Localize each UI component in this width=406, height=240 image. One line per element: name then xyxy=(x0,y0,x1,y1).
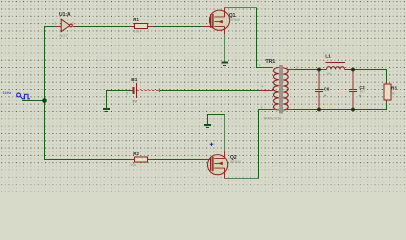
svg-text:+: + xyxy=(324,94,327,99)
junction dot bottom of C2 xyxy=(351,108,355,112)
resistor R3 body xyxy=(384,84,391,100)
wire R1 to Q1 gate xyxy=(153,26,203,28)
wire U1:A output to R1 xyxy=(77,26,130,28)
junction dot top of C2 xyxy=(351,68,355,72)
transistor Q1 drain pin xyxy=(224,7,226,17)
svg-text:U1:A: U1:A xyxy=(59,12,71,18)
ground for Q2 source xyxy=(204,125,211,128)
transformer TR1 core xyxy=(280,65,282,114)
transistor Q2 drain pin xyxy=(224,168,226,178)
ground for Q1 source xyxy=(221,63,228,66)
resistor R2 pin stubs xyxy=(129,159,153,161)
svg-text:10k: 10k xyxy=(134,30,140,34)
junction dot bottom of C6 xyxy=(317,108,321,112)
wire input to node A xyxy=(22,100,45,102)
capacitor C2 plates xyxy=(349,90,357,92)
battery B1 short plate xyxy=(133,87,135,94)
inductor L1 winding xyxy=(327,67,345,70)
svg-text:R1: R1 xyxy=(133,17,139,22)
wire B1 plus to TR1 centre tap pin4 xyxy=(159,90,260,92)
node A junction dot xyxy=(42,98,47,103)
transformer TR1 pin 5 stub xyxy=(287,109,295,111)
transistor Q2 body circle xyxy=(208,155,228,175)
svg-text:IRF540: IRF540 xyxy=(229,18,240,22)
capacitor C6 plates xyxy=(315,90,323,92)
wire node to U1:A input xyxy=(45,26,56,28)
svg-text:C6: C6 xyxy=(324,87,330,92)
svg-text:2V: 2V xyxy=(132,99,137,104)
input generator icon xyxy=(17,93,30,99)
svg-text:3: 3 xyxy=(126,91,128,95)
battery B1 long plate xyxy=(136,83,138,98)
transistor Q2 gate pin xyxy=(203,159,211,161)
svg-text:10k: 10k xyxy=(130,163,136,167)
wire Q1 drain to TR1 pin1 xyxy=(225,7,257,9)
svg-text:1k: 1k xyxy=(391,92,395,96)
wire bottom rail of secondary xyxy=(294,103,387,110)
svg-text:IRF540: IRF540 xyxy=(230,160,241,164)
wire TR1 pin3 vertical xyxy=(257,110,259,179)
wire Q1 source to ground xyxy=(224,33,226,62)
svg-text:B1: B1 xyxy=(131,77,137,83)
resistor R3 pin stubs xyxy=(386,82,388,103)
svg-text:1: 1 xyxy=(55,22,57,26)
svg-text:2: 2 xyxy=(72,22,74,26)
transformer TR1 secondary winding xyxy=(283,68,288,110)
transistor Q2 internal symbol xyxy=(211,157,225,172)
svg-text:L1: L1 xyxy=(325,53,331,59)
wire main vertical bus xyxy=(44,26,46,160)
wire battery B1 minus to ground xyxy=(107,91,131,109)
transistor Q1 source pin xyxy=(224,26,226,34)
wire L1 to R3 top xyxy=(347,70,387,82)
wire R2 to Q2 gate xyxy=(153,159,203,161)
resistor R1 pin stubs xyxy=(129,26,153,28)
junction dot top of C6 xyxy=(317,68,321,72)
op-amp U1:A inverter triangle xyxy=(61,19,70,32)
wire bottom: node to R2 xyxy=(45,159,130,161)
battery B1 dashed selected wire xyxy=(137,90,159,92)
wire drain rail vertical xyxy=(257,8,259,68)
svg-text:1H: 1H xyxy=(326,72,331,76)
svg-text:TRAN-2P3S: TRAN-2P3S xyxy=(263,117,282,121)
capacitor C6 pins xyxy=(318,70,320,110)
svg-text:R3: R3 xyxy=(391,85,397,90)
svg-text:TR1: TR1 xyxy=(266,59,276,65)
inductor L1 pin stubs xyxy=(322,69,347,71)
wire Q2 drain to TR1 pin3 xyxy=(225,178,259,180)
transistor Q1 body circle xyxy=(209,10,229,30)
transistor Q1 internal symbol xyxy=(211,14,225,28)
resistor R2 body xyxy=(135,157,148,162)
svg-text:4u7: 4u7 xyxy=(360,90,366,94)
capacitor C2 pins xyxy=(352,70,354,110)
battery B1 dashed wire end tick xyxy=(159,89,161,93)
transformer TR1 pin 2 stub xyxy=(287,69,298,71)
transistor Q2 source pin xyxy=(224,152,226,159)
transformer TR1 pin 3 stub xyxy=(258,109,275,111)
resistor R1 body xyxy=(135,24,148,29)
probe marker above Q2 xyxy=(210,143,213,146)
wire Q2 source up and left to ground xyxy=(224,115,226,152)
transformer TR1 primary winding xyxy=(273,68,279,111)
battery B1 minus pin stub xyxy=(131,90,134,92)
op-amp U1 pin stubs xyxy=(56,26,77,28)
wire Q2 source to ground horizontal xyxy=(207,115,225,124)
wire TR1 secondary top rail xyxy=(297,69,322,71)
svg-text:+: + xyxy=(359,94,362,99)
svg-text:NOT: NOT xyxy=(60,33,69,38)
transformer TR1 pin 1 stub xyxy=(258,67,273,69)
inductor L1 core bar xyxy=(325,62,345,64)
transistor Q1 gate pin xyxy=(203,26,211,28)
transformer TR1 pin 4 stub xyxy=(260,90,274,92)
svg-text:R2: R2 xyxy=(133,151,139,156)
ground for battery B1 xyxy=(103,109,110,112)
svg-text:1kHz: 1kHz xyxy=(3,90,12,95)
op-amp U1 output bubble xyxy=(70,24,73,27)
